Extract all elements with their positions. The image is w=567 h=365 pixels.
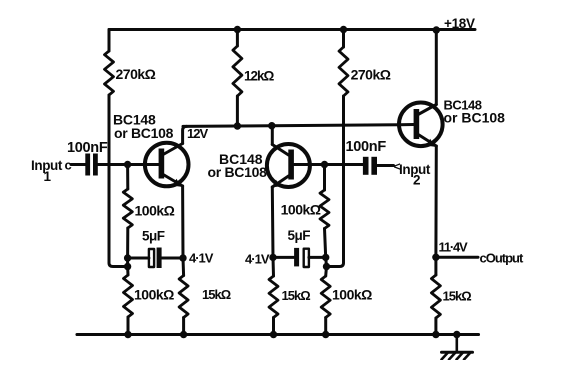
wire Q3 collector to +18V rail xyxy=(435,30,438,105)
capacitor C1 100nF xyxy=(85,154,98,176)
svg-text:270kΩ: 270kΩ xyxy=(116,66,156,82)
ground symbol xyxy=(442,335,473,360)
svg-text:15kΩ: 15kΩ xyxy=(282,288,311,303)
svg-text:100kΩ: 100kΩ xyxy=(135,203,175,219)
wire C2 right to Q1 emitter node xyxy=(162,257,183,260)
resistor R2 12k (stub + zigzag + stub) xyxy=(233,30,242,127)
node 12k bottom on interstage line xyxy=(234,122,241,129)
wire Q1 emitter drop to 4.1V node xyxy=(181,186,184,258)
svg-text:12kΩ: 12kΩ xyxy=(244,69,275,84)
wire input1 to C1 xyxy=(71,163,86,166)
node R8 bottom on ground rail xyxy=(270,331,277,338)
node Q2 collector on interstage line xyxy=(268,122,275,129)
svg-text:cOutput: cOutput xyxy=(480,251,524,266)
node Q2 base junction xyxy=(321,161,328,168)
node A (C2 left / R4 bottom) xyxy=(124,254,131,261)
node R10 bottom on ground rail xyxy=(432,331,439,338)
wire Q3 base lead xyxy=(400,123,414,126)
transistor Q3 BC148/BC108 xyxy=(399,103,443,147)
wire node X to node Y stub xyxy=(324,257,328,266)
node Q2 emitter / C4 left (4.1V) xyxy=(269,254,276,261)
svg-text:5μF: 5μF xyxy=(142,229,165,244)
node 12k top on +18V rail xyxy=(234,26,241,33)
node R9 bottom on ground rail xyxy=(322,331,329,338)
svg-text:270kΩ: 270kΩ xyxy=(351,67,391,83)
node X (C4 right / R7 bottom) xyxy=(322,254,329,261)
resistor R5 100k (node B to ground) xyxy=(124,267,133,335)
node Q3 collector on +18V rail xyxy=(433,26,440,33)
node Q1 base junction xyxy=(124,161,131,168)
resistor R10 15k (output node to ground) xyxy=(431,257,440,334)
wire R1 bottom down to node B (crosses input wire, no join) xyxy=(109,95,128,267)
resistor R4 100k (Q1 base to node A) xyxy=(123,165,132,259)
svg-text:100kΩ: 100kΩ xyxy=(281,202,321,218)
wire Q2 collector riser xyxy=(271,126,274,145)
svg-text:c: c xyxy=(65,158,72,173)
wire R3 bottom down to node Y (crosses interstage line, no join) xyxy=(327,96,344,267)
svg-text:100nF: 100nF xyxy=(67,140,108,156)
resistor R8 15k (Q2 emitter to ground) xyxy=(269,257,278,334)
wire Q3 emitter drop to output node xyxy=(434,146,437,257)
wire Q1 collector riser xyxy=(183,126,187,143)
node R6 bottom on ground rail xyxy=(180,331,187,338)
node Q1 emitter / C2 right (4.1V) xyxy=(179,254,186,261)
svg-text:100nF: 100nF xyxy=(346,139,387,155)
wire Q2 emitter node to C4 left xyxy=(273,256,294,259)
node Y (R3 / R9 junction) xyxy=(323,263,330,270)
svg-text:or BC108: or BC108 xyxy=(444,109,506,125)
resistor R1 270k (left, top stub + zigzag) xyxy=(105,30,114,96)
capacitor C2 5uF xyxy=(149,248,162,269)
svg-text:2: 2 xyxy=(413,172,421,187)
wire C3 to input2 terminal xyxy=(377,164,394,167)
wire output node to terminal xyxy=(436,256,478,259)
wire ground bottom rail xyxy=(77,333,479,336)
svg-text:4·1V: 4·1V xyxy=(189,251,214,266)
svg-text:15kΩ: 15kΩ xyxy=(443,289,472,304)
resistor R7 100k (Q2 base to node X) xyxy=(320,165,329,258)
svg-text:or BC108: or BC108 xyxy=(208,164,268,180)
svg-text:11·4V: 11·4V xyxy=(439,240,469,255)
svg-text:or BC108: or BC108 xyxy=(114,125,174,141)
wire Q2 emitter drop to 4.1V node xyxy=(271,187,275,257)
resistor R9 100k (node Y to ground) xyxy=(321,267,330,335)
wire interstage line (Q1/Q2 collectors to Q3 base) xyxy=(183,125,400,127)
node 270k-right top on +18V rail xyxy=(340,26,347,33)
transistor Q1 BC148/BC108 xyxy=(145,143,189,187)
svg-text:15kΩ: 15kΩ xyxy=(202,287,231,302)
wire C1 to Q1 base xyxy=(98,163,159,166)
transistor Q2 BC148/BC108 (mirrored) xyxy=(267,144,310,187)
node output (Q3 emitter, 11.4V) xyxy=(432,254,439,261)
node R5 bottom on ground rail xyxy=(124,331,131,338)
resistor R3 270k (right, top stub + zigzag) xyxy=(339,30,348,97)
wire node A to C2 left xyxy=(128,257,149,260)
capacitor C3 100nF xyxy=(363,157,377,175)
svg-text:12V: 12V xyxy=(187,126,208,141)
svg-text:+18V: +18V xyxy=(444,16,475,31)
wire Q2 base to C3 xyxy=(294,163,363,166)
svg-text:5μF: 5μF xyxy=(288,228,311,243)
wire +18V top rail xyxy=(109,28,475,31)
resistor R6 15k (Q1 emitter to ground) xyxy=(179,258,188,335)
svg-text:100kΩ: 100kΩ xyxy=(134,287,174,303)
node ground tap on rail xyxy=(453,331,460,338)
capacitor C4 5uF (mirrored) xyxy=(294,248,309,267)
svg-text:4·1V: 4·1V xyxy=(245,252,270,267)
wire C4 right to node X xyxy=(309,256,326,259)
node B (R1 / R5 junction) xyxy=(124,263,131,270)
wire node A to node B stub xyxy=(126,258,129,267)
svg-text:100kΩ: 100kΩ xyxy=(332,287,372,303)
svg-text:1: 1 xyxy=(44,169,52,184)
